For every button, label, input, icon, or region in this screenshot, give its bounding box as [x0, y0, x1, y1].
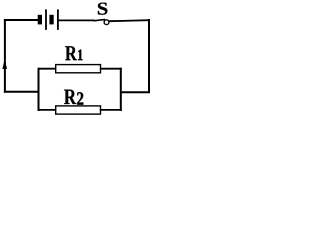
switch S: [94, 3, 109, 25]
resistor R1 body box: [56, 65, 101, 73]
wire right feed (junction with right bus): [121, 91, 150, 93]
wire top-left (battery negative to left corner): [4, 19, 38, 21]
wire R1 right: [100, 68, 122, 70]
label R2: [64, 90, 76, 104]
wire left feed (junction with left bus): [4, 91, 39, 93]
battery plate positive (cell 1): [45, 9, 47, 30]
switch blade (open): [94, 19, 105, 20]
resistor R2 body box: [56, 106, 101, 114]
switch contact circle: [104, 20, 109, 25]
label S: [98, 3, 108, 15]
resistor R2: [56, 90, 101, 115]
wire R1 left: [38, 68, 56, 70]
battery plate negative (cell 2): [49, 15, 53, 25]
wire battery to switch: [59, 19, 95, 21]
wire R2 right: [100, 109, 122, 111]
resistor R1: [56, 46, 101, 73]
battery: [38, 9, 59, 30]
label R1: [65, 46, 77, 60]
wire right bus: [120, 68, 122, 111]
battery plate negative (cell 1): [38, 15, 42, 25]
wire left vertical: [4, 19, 6, 93]
wire right vertical: [148, 19, 150, 92]
battery plate positive (cell 2): [57, 9, 59, 30]
wire left bus: [38, 68, 40, 111]
wire switch to top-right corner: [109, 20, 149, 21]
wire R2 left: [38, 109, 56, 111]
current direction arrow: [2, 59, 7, 69]
